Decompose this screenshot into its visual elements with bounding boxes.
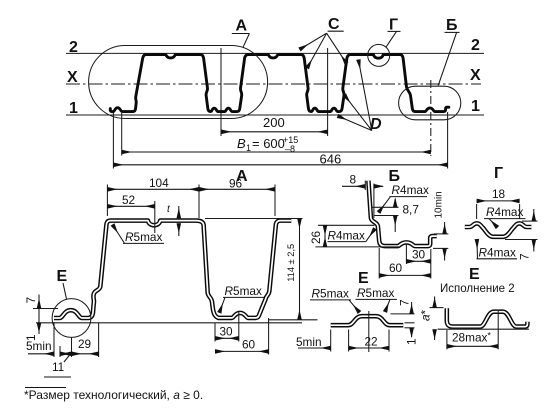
svg-text:10min: 10min bbox=[434, 191, 445, 218]
svg-text:*Размер технологический, а ≥ 0: *Размер технологический, а ≥ 0. bbox=[24, 388, 203, 402]
bottom small dims 5min / 11 / 29 bbox=[53, 322, 55, 357]
dim a* (lip height) bbox=[430, 307, 444, 309]
dim 5min bbox=[330, 330, 332, 352]
svg-text:7: 7 bbox=[398, 299, 412, 306]
rib axis at right end rib bbox=[430, 80, 432, 156]
sheet profile variant 2 (double line) bbox=[447, 308, 528, 326]
baseline bbox=[438, 328, 530, 330]
svg-text:5min: 5min bbox=[26, 339, 52, 353]
svg-text:8: 8 bbox=[350, 173, 357, 187]
svg-text:X: X bbox=[67, 69, 78, 86]
dim 114 +-2.5 bbox=[205, 218, 303, 220]
svg-text:60: 60 bbox=[242, 338, 256, 352]
dim 30 (valley) bbox=[214, 323, 216, 342]
sheet profile of detail G (double line wave) bbox=[465, 223, 532, 236]
svg-text:7: 7 bbox=[24, 297, 38, 304]
detail circle A (stadium around left part) bbox=[89, 46, 268, 119]
detail circle G (small circle on top flange) bbox=[368, 44, 390, 66]
svg-text:1: 1 bbox=[405, 338, 419, 345]
bump axis bbox=[368, 311, 370, 352]
dim 26 (left height) bbox=[318, 224, 375, 226]
svg-text:а*: а* bbox=[419, 309, 433, 321]
svg-text:11: 11 bbox=[52, 360, 64, 374]
svg-text:Е: Е bbox=[57, 268, 68, 285]
footnote bbox=[24, 388, 203, 403]
svg-text:Б: Б bbox=[446, 17, 458, 34]
dim 7 (left bump height) bbox=[33, 308, 58, 310]
rib axis line (valley 3) bbox=[327, 48, 329, 136]
svg-text:R5max: R5max bbox=[225, 284, 262, 298]
sheet strip with bump (double line) bbox=[331, 316, 404, 325]
line 1 (bottom fibre line) bbox=[66, 114, 484, 116]
bottom baseline bbox=[36, 322, 302, 324]
svg-text:B: B bbox=[237, 136, 246, 151]
svg-text:7: 7 bbox=[518, 253, 532, 260]
profile (thick cross-section line) bbox=[110, 55, 449, 112]
svg-text:22: 22 bbox=[365, 334, 378, 348]
detail circle B (stadium around right end rib) bbox=[399, 86, 461, 120]
svg-text:R5max: R5max bbox=[357, 286, 394, 300]
svg-text:28max*: 28max* bbox=[452, 331, 491, 345]
svg-text:26: 26 bbox=[309, 230, 323, 244]
svg-text:R5max: R5max bbox=[125, 230, 162, 244]
dim 7 (bump height) bbox=[391, 313, 415, 315]
line 2 (top fibre line) bbox=[66, 52, 484, 54]
dim 52 bbox=[154, 201, 156, 233]
svg-text:Е: Е bbox=[358, 270, 369, 287]
sheet profile of detail A (double line) bbox=[54, 221, 291, 318]
svg-text:А: А bbox=[236, 18, 248, 35]
svg-text:18: 18 bbox=[492, 187, 506, 201]
dim 18 bbox=[476, 204, 478, 219]
dim 28max* bbox=[446, 330, 448, 349]
svg-text:96: 96 bbox=[229, 177, 243, 191]
svg-text:= 600: = 600 bbox=[252, 136, 285, 151]
dim 96 bbox=[274, 185, 276, 217]
svg-text:R4max: R4max bbox=[479, 246, 516, 260]
svg-text:X: X bbox=[470, 67, 481, 84]
detail circle E bbox=[52, 299, 91, 338]
dim 60 (valley) bbox=[268, 318, 270, 355]
svg-text:Г: Г bbox=[494, 165, 503, 182]
svg-text:R5max: R5max bbox=[312, 287, 349, 301]
svg-text:2: 2 bbox=[69, 39, 78, 56]
svg-text:R4max: R4max bbox=[392, 183, 429, 197]
svg-text:29: 29 bbox=[78, 337, 91, 351]
svg-text:30: 30 bbox=[412, 248, 426, 262]
dim 22 bbox=[348, 330, 350, 352]
dim 104 bbox=[106, 185, 108, 217]
dim 1 (thickness) bbox=[405, 327, 415, 329]
svg-text:С: С bbox=[328, 16, 340, 33]
sheet profile of detail B (double line) bbox=[368, 181, 436, 246]
dim B1 = 600 +15/-8 bbox=[121, 113, 123, 156]
svg-text:1: 1 bbox=[69, 100, 78, 117]
svg-text:8,7: 8,7 bbox=[403, 203, 419, 217]
svg-text:30: 30 bbox=[220, 325, 234, 339]
svg-text:Исполнение 2: Исполнение 2 bbox=[440, 283, 515, 295]
dim 60 (bottom width) bbox=[378, 248, 380, 279]
svg-text:R4max: R4max bbox=[328, 229, 365, 243]
dim 30 (bump to lip) bbox=[405, 244, 407, 264]
rib axis line (valley 2) bbox=[220, 48, 222, 136]
dim 10min (right lip) bbox=[434, 233, 448, 235]
dim 7 (wave depth) bbox=[522, 220, 538, 222]
svg-text:Е: Е bbox=[469, 266, 480, 283]
svg-text:52: 52 bbox=[122, 193, 135, 207]
line X (neutral axis, dash-dot) bbox=[66, 83, 481, 85]
svg-text:1: 1 bbox=[471, 98, 480, 115]
svg-text:60: 60 bbox=[389, 261, 403, 275]
svg-text:t: t bbox=[167, 204, 171, 215]
svg-text:104: 104 bbox=[149, 176, 169, 190]
svg-text:200: 200 bbox=[263, 115, 285, 130]
dim 646 bbox=[112, 113, 114, 169]
svg-text:R4max: R4max bbox=[486, 205, 523, 219]
svg-text:646: 646 bbox=[320, 152, 342, 167]
svg-text:114 ± 2,5: 114 ± 2,5 bbox=[286, 244, 296, 282]
svg-text:2: 2 bbox=[471, 37, 480, 54]
svg-text:5min: 5min bbox=[296, 335, 322, 349]
